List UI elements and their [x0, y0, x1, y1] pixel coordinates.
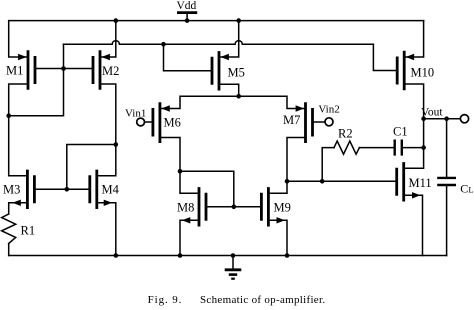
svg-text:Vin1: Vin1 [125, 108, 146, 120]
svg-text:M3: M3 [3, 183, 20, 197]
svg-text:C1: C1 [393, 125, 408, 139]
svg-text:Schematic of op-amplifier.: Schematic of op-amplifier. [200, 294, 325, 306]
svg-text:Vin2: Vin2 [318, 104, 339, 116]
svg-text:Fig. 9.: Fig. 9. [148, 294, 183, 306]
svg-text:R2: R2 [338, 127, 353, 141]
svg-text:M8: M8 [177, 201, 194, 215]
svg-text:Vdd: Vdd [177, 0, 197, 12]
svg-text:CL: CL [460, 182, 473, 196]
svg-text:M5: M5 [228, 66, 245, 80]
svg-text:M1: M1 [6, 64, 23, 78]
svg-text:M2: M2 [102, 64, 119, 78]
svg-text:M9: M9 [274, 201, 291, 215]
svg-text:M10: M10 [411, 66, 435, 80]
svg-text:M11: M11 [409, 176, 432, 190]
svg-text:R1: R1 [21, 224, 36, 238]
svg-text:M6: M6 [164, 116, 181, 130]
svg-text:Vout: Vout [421, 107, 443, 119]
svg-text:M4: M4 [102, 183, 120, 197]
svg-text:M7: M7 [283, 113, 300, 127]
